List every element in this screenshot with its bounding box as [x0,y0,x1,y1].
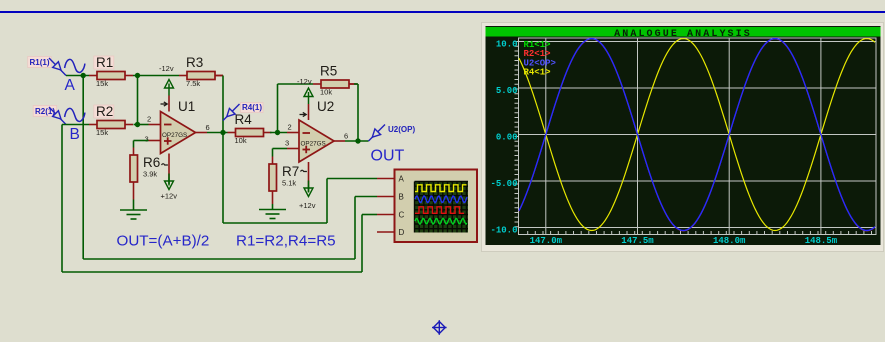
svg-text:R2: R2 [96,104,113,119]
svg-text:OUT=(A+B)/2: OUT=(A+B)/2 [117,233,210,250]
svg-text:15k: 15k [96,128,108,137]
svg-text:R1(1): R1(1) [30,58,50,67]
voltage probe R4(1) [223,103,263,121]
U1 V- pin [168,154,170,178]
svg-text:3: 3 [285,139,289,148]
oscilloscope pin D [377,228,405,237]
generator input A / R1(1) [28,57,85,95]
svg-text:R4<1>: R4<1> [524,68,551,78]
junction A [81,73,86,78]
svg-text:-10.0: -10.0 [490,226,517,236]
svg-text:R3: R3 [186,55,203,70]
svg-text:-5.00: -5.00 [490,179,517,189]
graph trace U2(OP) blue [519,39,875,231]
pin marker arrow U1 top [161,102,168,106]
svg-text:+12v: +12v [161,192,178,201]
junction R1 right [135,73,140,78]
svg-text:10k: 10k [320,88,332,97]
svg-text:6: 6 [206,123,210,132]
wire R5 corner [354,83,358,85]
graph gridlines [519,38,877,235]
R6 bottom lead [133,182,135,200]
R7 bottom lead [272,191,274,204]
wire R1 to R3 [133,75,179,77]
pin marker tilde U2 bottom [301,170,307,171]
power terminal -12v (U1) [159,64,174,96]
U2 pin 2 [287,132,299,134]
svg-text:148.0m: 148.0m [713,236,746,246]
svg-text:C: C [399,210,405,219]
U2 V+ pin [308,104,310,120]
wire B to R2 [62,124,89,126]
ground (R6) [120,210,147,219]
svg-text:7.5k: 7.5k [186,79,200,88]
wire R6 to U1 pin 3 [134,140,149,142]
graph legend [524,40,556,78]
svg-text:2: 2 [288,123,292,132]
svg-text:B: B [399,192,404,201]
svg-text:R1: R1 [96,55,113,70]
svg-text:U2: U2 [317,99,334,114]
analogue analysis graph window [482,23,884,252]
svg-text:R6: R6 [143,155,160,170]
generator input B / R2(1) [33,106,85,144]
svg-text:OP27GS: OP27GS [162,132,187,139]
wire node down R1-R2 [137,76,139,125]
svg-text:OP27GS: OP27GS [301,141,326,148]
wire down to R7 [272,149,274,157]
scope trace B (blue sine) [415,196,467,203]
U2 pin 6 output [334,140,345,142]
graph plot border [519,38,877,235]
graph trace R2(1) red [519,39,875,231]
svg-text:5.00: 5.00 [496,86,518,96]
wire to scope pin B [355,196,377,198]
wire U2 out [345,140,369,142]
voltage probe U2(OP) [369,125,416,142]
wire R6 to ground [133,200,135,211]
resistor R2 [89,104,133,137]
R7 top lead [272,157,274,165]
wire R2 to U1 pin 2 [134,124,149,126]
pin marker arrow U2 top [300,112,307,116]
U1 pin 3 [149,140,161,142]
R5 right lead [349,83,354,85]
svg-text:6: 6 [344,132,348,141]
crosshair cursor [432,320,447,335]
scope trace A (yellow square) [415,185,467,192]
U2 pin 3 [287,148,299,150]
graph x-axis labels [530,236,838,246]
wire R4 to U2 pin 2 [270,132,287,134]
sheet border line [0,11,885,13]
U1 pin 2 [149,124,161,126]
scope trace C (red square) [415,207,464,214]
svg-text:A: A [65,77,76,94]
wire A to R1 [66,75,89,77]
resistor R6 [130,155,160,182]
svg-text:15k: 15k [96,79,108,88]
svg-text:OUT: OUT [371,148,405,165]
graph trace R1(1) green [519,39,875,231]
stub to +12v arrow U2 [308,185,310,192]
oscilloscope screen [415,182,469,233]
svg-text:R5: R5 [320,64,337,79]
wire R7 to ground [272,204,274,210]
wire R5 to U2 output [357,84,359,141]
svg-text:A: A [399,174,405,183]
wire up to scope pin B [354,197,356,260]
junction U2 output [355,138,360,143]
oscilloscope pin C [377,210,405,219]
wire R3 to U1 output [222,76,224,133]
wire up to scope pin C [361,215,363,273]
junction U1 output [220,130,225,135]
wire to R5 [278,83,314,85]
wire A horizontal to scope [83,258,355,260]
wire down to R6 [133,141,135,148]
op-amp U2 [299,99,334,162]
pin marker tilde U1 bottom [162,164,168,165]
svg-text:0.00: 0.00 [496,133,518,143]
graph axis ticks [515,42,872,235]
svg-text:147.5m: 147.5m [621,236,654,246]
power terminal +12v (U2) [299,181,316,211]
svg-text:3: 3 [145,135,149,144]
graph trace R4(1) yellow [519,39,875,231]
resistor R7 [269,164,299,191]
svg-text:2: 2 [147,115,151,124]
graph title bar [486,27,881,40]
resistor R3 [179,55,223,88]
junction R4 right [275,130,280,135]
wire U1 out [207,132,228,134]
svg-text:R4(1): R4(1) [242,103,262,112]
svg-text:R7: R7 [282,164,299,179]
stub to +12v arrow [168,178,170,185]
R6 top lead [133,148,135,156]
wire R7 to U2 pin 3 [273,148,288,150]
oscilloscope pin A [377,174,405,183]
power terminal +12v (U1) [161,174,178,201]
svg-text:3.9k: 3.9k [143,170,157,179]
svg-text:R4: R4 [235,112,253,127]
wire to scope pin A [327,178,377,180]
wire A down [82,76,84,260]
svg-text:R1=R2,R4=R5: R1=R2,R4=R5 [236,233,336,250]
resistor R4 [228,112,272,145]
svg-text:10k: 10k [235,136,247,145]
wire U1 out horizontal [223,222,327,224]
svg-text:-12v: -12v [297,77,312,86]
svg-text:U2(OP): U2(OP) [388,125,415,134]
svg-text:10.0: 10.0 [496,40,518,50]
oscilloscope pin B [377,192,404,201]
graph y-axis labels [490,40,517,236]
svg-text:B: B [70,126,80,143]
R3 right lead [215,75,223,77]
U2 V- pin [308,162,310,185]
U1 pin 6 output [196,132,208,134]
svg-text:-12v: -12v [159,64,174,73]
svg-text:+12v: +12v [299,201,316,210]
wire to scope pin C [362,214,377,216]
wire feedback up U2 [277,84,279,133]
U1 V+ pin [168,96,170,112]
wire up to scope pin A [326,179,328,224]
op-amp U1 [161,99,196,154]
resistor R1 [89,55,133,88]
svg-text:147.0m: 147.0m [530,236,563,246]
scope trace D (green sine) [415,218,467,224]
svg-text:5.1k: 5.1k [282,179,296,188]
wire B horizontal to scope [62,271,362,273]
svg-text:D: D [399,228,405,237]
ground (R7) [259,210,286,219]
svg-text:U1: U1 [178,99,195,114]
oscilloscope [395,170,478,243]
svg-text:148.5m: 148.5m [805,236,838,246]
junction R2 right [135,122,140,127]
resistor R5 [313,64,357,97]
power terminal -12v (U2) [297,77,313,104]
wire B down [61,125,63,273]
wire U1 out down [222,133,224,224]
